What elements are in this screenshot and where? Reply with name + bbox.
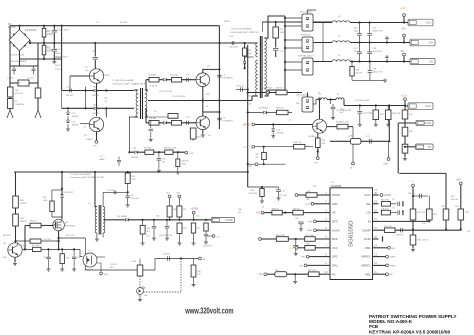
svg-text:C38 10n: C38 10n bbox=[396, 235, 404, 237]
svg-text:C18: C18 bbox=[162, 159, 165, 161]
svg-text:L6: L6 bbox=[289, 120, 291, 122]
svg-text:R48 100: R48 100 bbox=[276, 108, 284, 110]
svg-text:C10: C10 bbox=[67, 87, 70, 89]
svg-text:C31 47n: C31 47n bbox=[408, 193, 415, 195]
svg-text:1.4K: 1.4K bbox=[132, 179, 137, 181]
svg-text:C45: C45 bbox=[354, 48, 357, 50]
svg-text:Tuned power SQFT 53-180W 53V B: Tuned power SQFT 53-180W 53V BB bbox=[112, 83, 147, 86]
svg-text:C38: C38 bbox=[422, 223, 425, 225]
svg-text:C20 331: C20 331 bbox=[110, 264, 117, 266]
svg-text:1N4148: 1N4148 bbox=[55, 53, 63, 55]
svg-text:+3.3V: +3.3V bbox=[401, 93, 408, 97]
svg-text:C16: C16 bbox=[248, 104, 251, 106]
svg-text:1N60: 1N60 bbox=[43, 225, 48, 227]
svg-text:R64 1K: R64 1K bbox=[30, 221, 37, 223]
svg-text:D13: D13 bbox=[72, 122, 75, 124]
svg-text:www.320volt.com: www.320volt.com bbox=[185, 307, 234, 316]
svg-text:C12: C12 bbox=[43, 257, 46, 259]
svg-text:R59 1K: R59 1K bbox=[293, 208, 300, 210]
svg-text:L3: L3 bbox=[318, 93, 320, 95]
svg-text:I33: I33 bbox=[367, 211, 372, 215]
svg-text:L10: L10 bbox=[196, 216, 199, 218]
svg-text:-5V: -5V bbox=[427, 146, 431, 149]
svg-text:C9 4.7UF 50V: C9 4.7UF 50V bbox=[172, 96, 186, 98]
svg-text:100: 100 bbox=[238, 212, 241, 214]
svg-text:+12V: +12V bbox=[408, 180, 414, 183]
svg-text:OP1: OP1 bbox=[332, 264, 338, 268]
svg-text:C2 222: C2 222 bbox=[27, 78, 35, 80]
svg-text:R63 TH1: R63 TH1 bbox=[381, 200, 390, 202]
svg-text:STF5N52U: STF5N52U bbox=[65, 226, 76, 228]
svg-text:OFF: OFF bbox=[332, 220, 338, 224]
svg-text:C49: C49 bbox=[373, 69, 376, 71]
svg-text:R5 2K7: R5 2K7 bbox=[55, 65, 63, 67]
svg-text:C16: C16 bbox=[133, 147, 136, 149]
svg-text:V5: V5 bbox=[332, 211, 336, 215]
svg-text:C48: C48 bbox=[373, 48, 376, 50]
svg-text:C21: C21 bbox=[131, 195, 134, 197]
svg-text:COMP: COMP bbox=[362, 228, 371, 232]
svg-text:TL431: TL431 bbox=[131, 261, 136, 263]
svg-text:C22 1000uF 16V: C22 1000uF 16V bbox=[336, 110, 352, 112]
svg-text:D12: D12 bbox=[156, 216, 159, 218]
svg-text:2W22K: 2W22K bbox=[20, 221, 27, 223]
svg-text:C23 1000uF 16V: C23 1000uF 16V bbox=[355, 100, 370, 102]
svg-text:R58 1K: R58 1K bbox=[272, 208, 279, 210]
svg-text:R62 10K: R62 10K bbox=[308, 270, 316, 272]
svg-text:+5VSB: +5VSB bbox=[243, 125, 251, 127]
svg-text:C17: C17 bbox=[100, 156, 103, 158]
svg-text:R9: R9 bbox=[105, 110, 107, 112]
svg-text:R50: R50 bbox=[313, 186, 316, 188]
svg-text:-12V: -12V bbox=[401, 27, 407, 31]
svg-text:UVAC: UVAC bbox=[307, 229, 313, 232]
svg-text:D12: D12 bbox=[72, 113, 75, 115]
svg-text:C30: C30 bbox=[374, 190, 377, 192]
svg-text:R66 22K: R66 22K bbox=[384, 226, 392, 228]
svg-text:R14: R14 bbox=[147, 228, 150, 230]
svg-text:D3 D4 RL206: D3 D4 RL206 bbox=[11, 55, 25, 57]
svg-text:+5VSB: +5VSB bbox=[384, 195, 392, 197]
svg-text:SCK 053: SCK 053 bbox=[15, 93, 24, 95]
svg-text:C14 10n: C14 10n bbox=[107, 190, 114, 192]
svg-text:+5V: +5V bbox=[456, 178, 461, 181]
svg-text:R4 470K: R4 470K bbox=[120, 22, 128, 24]
svg-text:V12: V12 bbox=[332, 246, 338, 250]
svg-text:D8: D8 bbox=[153, 118, 155, 120]
svg-text:C43: C43 bbox=[146, 236, 149, 238]
svg-text:R50: R50 bbox=[197, 271, 200, 273]
svg-text:R44 ACT 2.2K: R44 ACT 2.2K bbox=[336, 120, 349, 123]
svg-text:R07: R07 bbox=[183, 209, 186, 211]
svg-text:100K: 100K bbox=[43, 200, 48, 202]
svg-text:PSON: PSON bbox=[332, 193, 341, 197]
svg-text:D93 SBL2040CT: D93 SBL2040CT bbox=[298, 56, 314, 58]
svg-text:+5VSB: +5VSB bbox=[190, 208, 198, 211]
svg-text:C9: C9 bbox=[83, 127, 85, 129]
svg-text:R47: R47 bbox=[197, 228, 200, 230]
svg-text:2200: 2200 bbox=[354, 51, 358, 53]
svg-text:C44 2200uF/10V: C44 2200uF/10V bbox=[159, 235, 173, 237]
svg-text:T3: EE-16 (2.2mH/B5): T3: EE-16 (2.2mH/B5) bbox=[70, 174, 91, 176]
svg-text:TX: EE-35 (0.6mH/B5): TX: EE-35 (0.6mH/B5) bbox=[112, 80, 134, 82]
svg-text:IN: IN bbox=[368, 220, 371, 224]
svg-text:D2 RL206: D2 RL206 bbox=[25, 29, 37, 32]
svg-text:C13: C13 bbox=[77, 257, 80, 259]
svg-text:R17 10K: R17 10K bbox=[32, 245, 40, 247]
svg-text:FR107: FR107 bbox=[224, 21, 230, 23]
svg-text:C3150: C3150 bbox=[210, 70, 217, 72]
svg-text:C19 4n7: C19 4n7 bbox=[236, 86, 244, 88]
svg-text:C8 4.7UF 50V: C8 4.7UF 50V bbox=[159, 91, 173, 93]
svg-text:VREF2: VREF2 bbox=[361, 264, 371, 268]
svg-text:CP5: CP5 bbox=[93, 146, 97, 148]
svg-text:D8 HER103: D8 HER103 bbox=[223, 78, 233, 80]
svg-text:R36 2.2K 1%: R36 2.2K 1% bbox=[417, 240, 429, 242]
svg-text:D11 SB360: D11 SB360 bbox=[117, 216, 127, 218]
svg-text:PATRIOT SWITCHING POWER SUPPLY: PATRIOT SWITCHING POWER SUPPLY bbox=[369, 314, 457, 320]
svg-text:KEYTRAK KP-0206A V3.5 2008/10/: KEYTRAK KP-0206A V3.5 2008/10/08 bbox=[369, 329, 450, 335]
svg-text:VREF1: VREF1 bbox=[361, 255, 371, 259]
svg-text:C48 10n: C48 10n bbox=[163, 254, 170, 256]
svg-text:D91 T30100: D91 T30100 bbox=[300, 12, 312, 14]
svg-text:C40 10n: C40 10n bbox=[451, 199, 459, 201]
svg-text:UVAC: UVAC bbox=[332, 228, 341, 232]
svg-text:HM02: HM02 bbox=[100, 159, 105, 161]
svg-text:D10: D10 bbox=[93, 87, 96, 89]
svg-text:D21 FR104: D21 FR104 bbox=[258, 108, 269, 110]
svg-text:R8: R8 bbox=[105, 98, 107, 100]
svg-text:FB2: FB2 bbox=[365, 272, 371, 276]
svg-text:1/4W: 1/4W bbox=[182, 163, 187, 165]
svg-text:C9: C9 bbox=[223, 117, 225, 119]
svg-text:C36 47n: C36 47n bbox=[381, 208, 389, 210]
svg-text:D11: D11 bbox=[93, 104, 96, 106]
svg-text:C44: C44 bbox=[354, 28, 357, 30]
svg-text:R37: R37 bbox=[466, 212, 469, 214]
svg-text:V3D: V3D bbox=[332, 202, 339, 206]
svg-text:1%: 1% bbox=[392, 207, 395, 209]
svg-text:+12V: +12V bbox=[425, 22, 431, 25]
svg-text:D13007: D13007 bbox=[86, 139, 94, 141]
svg-text:R41 47: R41 47 bbox=[248, 96, 254, 98]
svg-text:LED: LED bbox=[144, 295, 148, 297]
svg-text:T2 EE-19: T2 EE-19 bbox=[149, 86, 157, 88]
svg-text:1N4148: 1N4148 bbox=[131, 157, 138, 159]
svg-text:+3.3VS: +3.3VS bbox=[423, 122, 431, 125]
svg-text:2.2: 2.2 bbox=[105, 113, 108, 115]
svg-text:FB1: FB1 bbox=[365, 246, 371, 250]
svg-text:R6 2K2: R6 2K2 bbox=[55, 57, 63, 59]
svg-text:D41: D41 bbox=[276, 130, 279, 132]
svg-text:VCC: VCC bbox=[364, 193, 371, 197]
svg-text:R43: R43 bbox=[340, 109, 343, 111]
svg-text:R15: R15 bbox=[23, 246, 26, 248]
svg-text:2W22K: 2W22K bbox=[20, 203, 27, 205]
svg-text:C6: C6 bbox=[96, 22, 98, 24]
svg-text:D7: D7 bbox=[153, 75, 155, 77]
svg-text:100K: 100K bbox=[280, 32, 285, 34]
svg-text:vREF2: vREF2 bbox=[390, 265, 397, 267]
svg-text:T 2A/250V: T 2A/250V bbox=[15, 103, 25, 106]
svg-text:2.2: 2.2 bbox=[105, 101, 108, 103]
svg-text:D20 4148/4AC: D20 4148/4AC bbox=[296, 94, 310, 97]
svg-text:FB GBC 6A60B: FB GBC 6A60B bbox=[11, 60, 27, 63]
svg-text:+12V: +12V bbox=[400, 6, 406, 10]
svg-text:R11 0.33: R11 0.33 bbox=[66, 235, 74, 237]
svg-text:(T1) EL-33 0.8mH(B5): (T1) EL-33 0.8mH(B5) bbox=[231, 29, 252, 31]
svg-text:+5V: +5V bbox=[258, 274, 263, 276]
svg-text:R59 220: R59 220 bbox=[182, 161, 189, 163]
svg-text:CP1: CP1 bbox=[166, 192, 170, 194]
svg-text:2SC945: 2SC945 bbox=[102, 75, 110, 77]
svg-text:C1 222: C1 222 bbox=[7, 78, 15, 80]
svg-text:R33 2.2K: R33 2.2K bbox=[417, 212, 426, 214]
svg-text:-5V: -5V bbox=[429, 61, 433, 64]
svg-text:C17: C17 bbox=[282, 191, 285, 193]
svg-text:D9 HER103: D9 HER103 bbox=[223, 120, 233, 122]
svg-text:C8: C8 bbox=[223, 75, 225, 77]
svg-text:+12V: +12V bbox=[289, 248, 295, 250]
svg-text:C47: C47 bbox=[373, 28, 376, 30]
svg-text:R18: R18 bbox=[66, 258, 69, 260]
svg-text:PG: PG bbox=[315, 163, 318, 165]
svg-text:BUP: BUP bbox=[332, 237, 338, 241]
svg-text:U2: U2 bbox=[88, 250, 90, 252]
svg-text:RL206: RL206 bbox=[8, 26, 16, 29]
svg-text:C12: C12 bbox=[186, 117, 189, 119]
svg-text:R45: R45 bbox=[238, 209, 241, 211]
svg-text:10R: 10R bbox=[322, 143, 326, 145]
svg-text:R06: R06 bbox=[173, 209, 176, 211]
svg-text:R57 100K: R57 100K bbox=[305, 235, 315, 237]
svg-text:CP2: CP2 bbox=[176, 192, 180, 194]
svg-text:R26: R26 bbox=[251, 190, 254, 192]
svg-text:P2: P2 bbox=[332, 272, 336, 276]
svg-text:GND: GND bbox=[364, 237, 372, 241]
svg-text:+3.3V: +3.3V bbox=[425, 105, 432, 108]
svg-text:OFF: OFF bbox=[308, 221, 313, 223]
svg-text:R12 330: R12 330 bbox=[170, 75, 178, 77]
svg-text:C2 472: C2 472 bbox=[55, 49, 62, 51]
svg-text:1N4148: 1N4148 bbox=[72, 125, 79, 127]
svg-text:+5V: +5V bbox=[256, 213, 261, 215]
svg-text:103: 103 bbox=[162, 161, 165, 163]
svg-text:R57 R07: R57 R07 bbox=[144, 147, 151, 149]
svg-text:D14 FR107: D14 FR107 bbox=[262, 88, 273, 90]
svg-text:47uF 50V: 47uF 50V bbox=[131, 198, 140, 200]
svg-text:1N4148: 1N4148 bbox=[276, 133, 283, 135]
svg-text:150K: 150K bbox=[47, 33, 53, 36]
svg-text:10: 10 bbox=[206, 106, 208, 108]
svg-text:1%: 1% bbox=[392, 199, 395, 201]
svg-text:1N5 50V: 1N5 50V bbox=[66, 95, 74, 97]
svg-text:From power SQFT 53-180W 53V BB: From power SQFT 53-180W 53V BB bbox=[70, 176, 104, 179]
svg-text:R20: R20 bbox=[206, 94, 209, 96]
svg-text:R58 100 1/2W: R58 100 1/2W bbox=[164, 147, 176, 149]
svg-text:OP2: OP2 bbox=[332, 255, 338, 259]
svg-text:vREF1: vREF1 bbox=[390, 257, 397, 259]
svg-text:470pF 250V: 470pF 250V bbox=[57, 29, 69, 31]
svg-text:C45 100uF: C45 100uF bbox=[203, 246, 213, 248]
svg-text:2W: 2W bbox=[256, 157, 259, 159]
svg-text:PCB: PCB bbox=[369, 324, 378, 330]
svg-text:470uF 16V: 470uF 16V bbox=[373, 51, 383, 53]
svg-text:R46: R46 bbox=[183, 228, 186, 230]
svg-text:R56 100K: R56 100K bbox=[276, 235, 286, 237]
svg-text:C11: C11 bbox=[186, 74, 189, 76]
svg-text:PS_ON: PS_ON bbox=[279, 195, 287, 197]
svg-text:R28: R28 bbox=[356, 70, 359, 72]
svg-text:IN1: IN1 bbox=[366, 202, 371, 206]
svg-text:2200: 2200 bbox=[354, 30, 358, 32]
svg-text:R13 47K: R13 47K bbox=[3, 235, 11, 237]
svg-text:4K7: 4K7 bbox=[147, 231, 150, 233]
svg-text:2.7R 1/4W: 2.7R 1/4W bbox=[248, 193, 257, 195]
svg-text:C41: C41 bbox=[467, 231, 470, 233]
svg-text:+5VSB: +5VSB bbox=[225, 219, 233, 222]
svg-text:R09 7.5K: R09 7.5K bbox=[294, 142, 303, 144]
svg-text:1N4148: 1N4148 bbox=[72, 116, 79, 118]
svg-text:0.1R 5W: 0.1R 5W bbox=[44, 239, 52, 241]
svg-text:R27: R27 bbox=[256, 154, 259, 156]
svg-text:SG6105D: SG6105D bbox=[349, 220, 355, 247]
svg-text:100 1W: 100 1W bbox=[356, 72, 363, 74]
svg-text:GND: GND bbox=[249, 166, 254, 168]
svg-text:R40 47: R40 47 bbox=[276, 88, 283, 90]
svg-text:1000uF 16V: 1000uF 16V bbox=[373, 30, 384, 32]
svg-text:1N4 200V: 1N4 200V bbox=[229, 47, 239, 49]
svg-text:SG6105D: SG6105D bbox=[331, 185, 342, 188]
svg-text:1N4148: 1N4148 bbox=[92, 113, 99, 115]
svg-text:1N4148: 1N4148 bbox=[92, 95, 99, 97]
svg-text:D92 FR302: D92 FR302 bbox=[300, 35, 311, 37]
svg-text:UVAC: UVAC bbox=[383, 163, 389, 166]
svg-text:GND: GND bbox=[104, 274, 109, 276]
svg-text:D16 FR107: D16 FR107 bbox=[64, 192, 74, 194]
svg-text:D20: D20 bbox=[296, 103, 299, 105]
svg-text:1000uF 16V: 1000uF 16V bbox=[373, 71, 384, 73]
svg-text:MODEL NO:A400-K: MODEL NO:A400-K bbox=[369, 319, 412, 325]
svg-text:0.6R/L5GND SQFT 53/57 Y3R: 0.6R/L5GND SQFT 53/57 Y3R bbox=[230, 32, 259, 34]
svg-text:150K: 150K bbox=[47, 49, 53, 52]
svg-text:C4 471: C4 471 bbox=[55, 69, 62, 71]
svg-text:-5V: -5V bbox=[400, 49, 404, 53]
svg-text:+3.3V: +3.3V bbox=[305, 204, 312, 206]
svg-text:R30 3.3K: R30 3.3K bbox=[392, 113, 401, 115]
svg-text:C40: C40 bbox=[451, 196, 454, 198]
svg-text:R12: R12 bbox=[43, 197, 46, 199]
svg-text:-12V: -12V bbox=[428, 42, 433, 45]
